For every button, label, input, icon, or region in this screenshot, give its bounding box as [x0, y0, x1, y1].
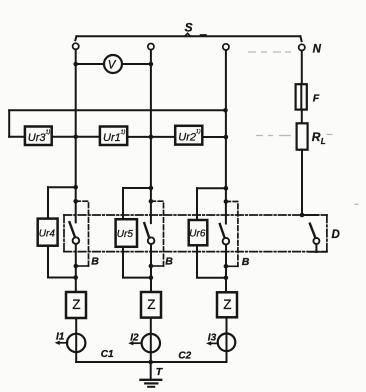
svg-text:1): 1) — [46, 130, 51, 136]
svg-text:I2: I2 — [130, 332, 139, 343]
svg-text:L: L — [321, 137, 326, 146]
svg-text:Ur5: Ur5 — [117, 229, 134, 240]
svg-text:Ur3: Ur3 — [28, 132, 47, 144]
svg-text:D: D — [332, 229, 340, 241]
svg-text:R: R — [312, 130, 321, 144]
svg-text:Ur1: Ur1 — [103, 132, 121, 144]
svg-text:F: F — [313, 92, 320, 104]
svg-text:I1: I1 — [56, 332, 65, 343]
svg-text:C2: C2 — [178, 351, 191, 362]
svg-text:T: T — [156, 366, 164, 378]
svg-text:Ur2: Ur2 — [178, 132, 196, 144]
svg-text:N: N — [313, 43, 322, 55]
svg-text:Z: Z — [72, 297, 80, 312]
svg-text:V: V — [108, 59, 117, 71]
svg-text:B: B — [91, 256, 99, 268]
svg-text:B: B — [242, 256, 250, 268]
svg-text:Z: Z — [223, 297, 231, 312]
svg-text:B: B — [165, 255, 173, 267]
svg-text:C1: C1 — [101, 349, 114, 360]
svg-text:Ur4: Ur4 — [39, 229, 56, 240]
svg-text:Z: Z — [147, 297, 155, 312]
svg-text:1): 1) — [196, 129, 201, 135]
svg-text:S: S — [185, 20, 193, 34]
svg-text:1): 1) — [121, 130, 126, 136]
svg-text:Ur6: Ur6 — [189, 228, 206, 239]
svg-text:I3: I3 — [208, 333, 217, 344]
